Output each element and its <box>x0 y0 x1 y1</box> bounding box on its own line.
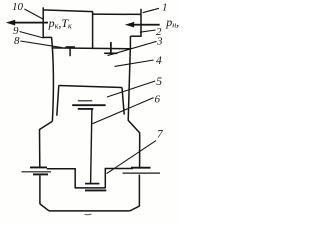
mid partition vertical <box>92 11 94 48</box>
svg-text:pн,: pн, <box>165 15 179 30</box>
inner vessel top <box>59 86 123 88</box>
nozzle stem <box>110 42 112 53</box>
leader 5 <box>107 81 155 97</box>
right bend <box>128 120 139 132</box>
svg-text:5: 5 <box>156 76 162 88</box>
capacitor CR top plate <box>131 167 151 169</box>
electrode third plate <box>78 108 94 110</box>
capacitor CL bottom plate <box>33 173 48 175</box>
leader 6 <box>92 98 153 124</box>
leader 9 <box>20 32 44 39</box>
right step horizontal <box>130 35 141 37</box>
svg-text:3: 3 <box>156 36 163 48</box>
electrode long plate <box>72 104 105 106</box>
capacitor CL lower stem <box>39 175 41 204</box>
leader 4 <box>115 60 154 66</box>
left step horizontal <box>43 36 52 38</box>
inner vessel right wall <box>122 88 124 115</box>
trough left wall <box>74 169 76 188</box>
svg-text:8: 8 <box>14 35 20 47</box>
outlet arrow <box>6 20 48 26</box>
top cover line left <box>43 10 93 12</box>
inlet arrow <box>125 22 160 28</box>
leader 3 <box>108 41 157 55</box>
svg-text:4: 4 <box>156 55 162 67</box>
leader 2 <box>140 30 156 32</box>
inner vessel left wall <box>57 86 59 116</box>
inlet tube right wall <box>140 9 142 37</box>
trough bottom <box>75 187 106 189</box>
T symbol bar <box>66 46 75 48</box>
svg-text:6: 6 <box>155 94 161 106</box>
right step vertical <box>129 36 131 48</box>
capacitor CR long middle line <box>123 172 161 174</box>
trough top-left line <box>47 168 76 170</box>
scan speck <box>85 213 92 216</box>
right leg wire <box>139 132 141 167</box>
leader 8 <box>20 41 62 48</box>
leader 10 <box>24 9 43 19</box>
septum line <box>52 47 131 50</box>
bottom right bevel <box>130 206 140 211</box>
left bend <box>39 121 52 129</box>
capacitor CR lower stem <box>138 175 140 207</box>
leader 7 <box>107 141 156 174</box>
leader 1 <box>143 8 159 12</box>
capacitor CL long middle line <box>22 171 52 173</box>
right outer wall <box>128 48 130 120</box>
capacitor CL top plate <box>30 166 47 168</box>
electrode top thin plate <box>78 100 92 102</box>
bottom wire <box>49 210 130 212</box>
bottom left bevel <box>40 204 49 211</box>
nozzle foot plate <box>104 52 117 54</box>
trough right wall <box>104 168 106 188</box>
left outer wall <box>52 37 54 121</box>
trough bottom thick plate <box>85 189 106 191</box>
svg-text:1: 1 <box>162 2 168 14</box>
T symbol stem <box>69 48 71 56</box>
left leg wire <box>39 129 41 166</box>
trough top-right line <box>105 168 133 170</box>
outlet tube left wall <box>42 7 44 37</box>
stem bottom plate <box>85 183 99 185</box>
electrode stem <box>91 110 92 184</box>
svg-text:10: 10 <box>12 1 24 13</box>
top cover line right <box>92 13 141 15</box>
